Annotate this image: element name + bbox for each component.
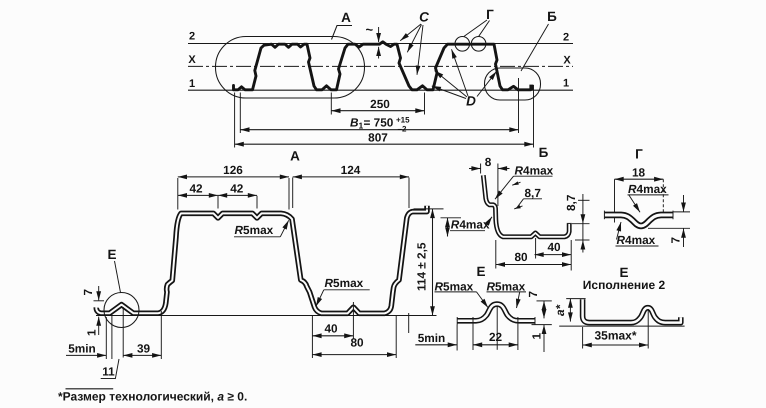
svg-text:80: 80: [514, 250, 528, 264]
svg-text:R4max: R4max: [451, 218, 490, 232]
svg-text:Б: Б: [547, 9, 557, 24]
svg-text:2: 2: [189, 31, 195, 43]
svg-text:C: C: [419, 10, 429, 25]
svg-text:R4max: R4max: [628, 182, 667, 196]
svg-text:a*: a*: [553, 303, 567, 316]
svg-text:5min: 5min: [418, 331, 446, 345]
svg-text:39: 39: [137, 341, 151, 355]
svg-text:40: 40: [324, 321, 338, 335]
svg-text:7: 7: [526, 291, 540, 298]
svg-text:R5max: R5max: [235, 223, 274, 237]
svg-text:11: 11: [102, 365, 115, 379]
svg-text:1: 1: [529, 333, 543, 340]
svg-text:R4max: R4max: [617, 233, 656, 247]
svg-text:250: 250: [370, 97, 390, 111]
svg-text:~: ~: [366, 22, 374, 37]
svg-text:А: А: [290, 149, 300, 164]
svg-text:7: 7: [669, 237, 683, 244]
svg-text:Г: Г: [486, 7, 494, 22]
svg-text:2: 2: [563, 32, 569, 44]
svg-text:35max*: 35max*: [594, 329, 636, 343]
svg-text:114 ± 2,5: 114 ± 2,5: [415, 242, 429, 291]
svg-text:126: 126: [223, 163, 243, 177]
svg-text:Е: Е: [476, 264, 485, 279]
svg-text:X: X: [563, 55, 571, 67]
svg-text:1: 1: [563, 78, 569, 90]
svg-text:8,7: 8,7: [564, 194, 578, 211]
svg-text:1: 1: [189, 78, 195, 90]
svg-text:22: 22: [489, 330, 503, 344]
svg-text:+15: +15: [396, 116, 410, 125]
svg-text:1: 1: [85, 329, 99, 336]
svg-text:8,7: 8,7: [525, 186, 542, 200]
svg-text:42: 42: [189, 181, 203, 195]
svg-text:807: 807: [368, 131, 388, 145]
svg-text:Г: Г: [635, 147, 643, 162]
svg-text:18: 18: [632, 166, 646, 180]
svg-text:5min: 5min: [68, 341, 96, 355]
svg-text:80: 80: [350, 336, 364, 350]
svg-text:Б: Б: [539, 145, 549, 160]
svg-text:R5max: R5max: [325, 276, 364, 290]
svg-text:40: 40: [547, 240, 561, 254]
svg-text:А: А: [341, 10, 351, 25]
svg-text:124: 124: [341, 163, 361, 177]
svg-text:= 750: = 750: [364, 116, 394, 130]
svg-text:7: 7: [81, 289, 95, 296]
svg-text:R4max: R4max: [515, 164, 554, 178]
svg-text:Исполнение 2: Исполнение 2: [583, 278, 666, 292]
svg-text:–2: –2: [398, 125, 407, 134]
svg-text:X: X: [188, 54, 196, 66]
svg-text:*Размер технологический, a ≥ 0: *Размер технологический, a ≥ 0.: [58, 390, 247, 404]
svg-text:Е: Е: [107, 247, 116, 262]
svg-text:42: 42: [230, 181, 244, 195]
svg-text:8: 8: [485, 155, 492, 169]
